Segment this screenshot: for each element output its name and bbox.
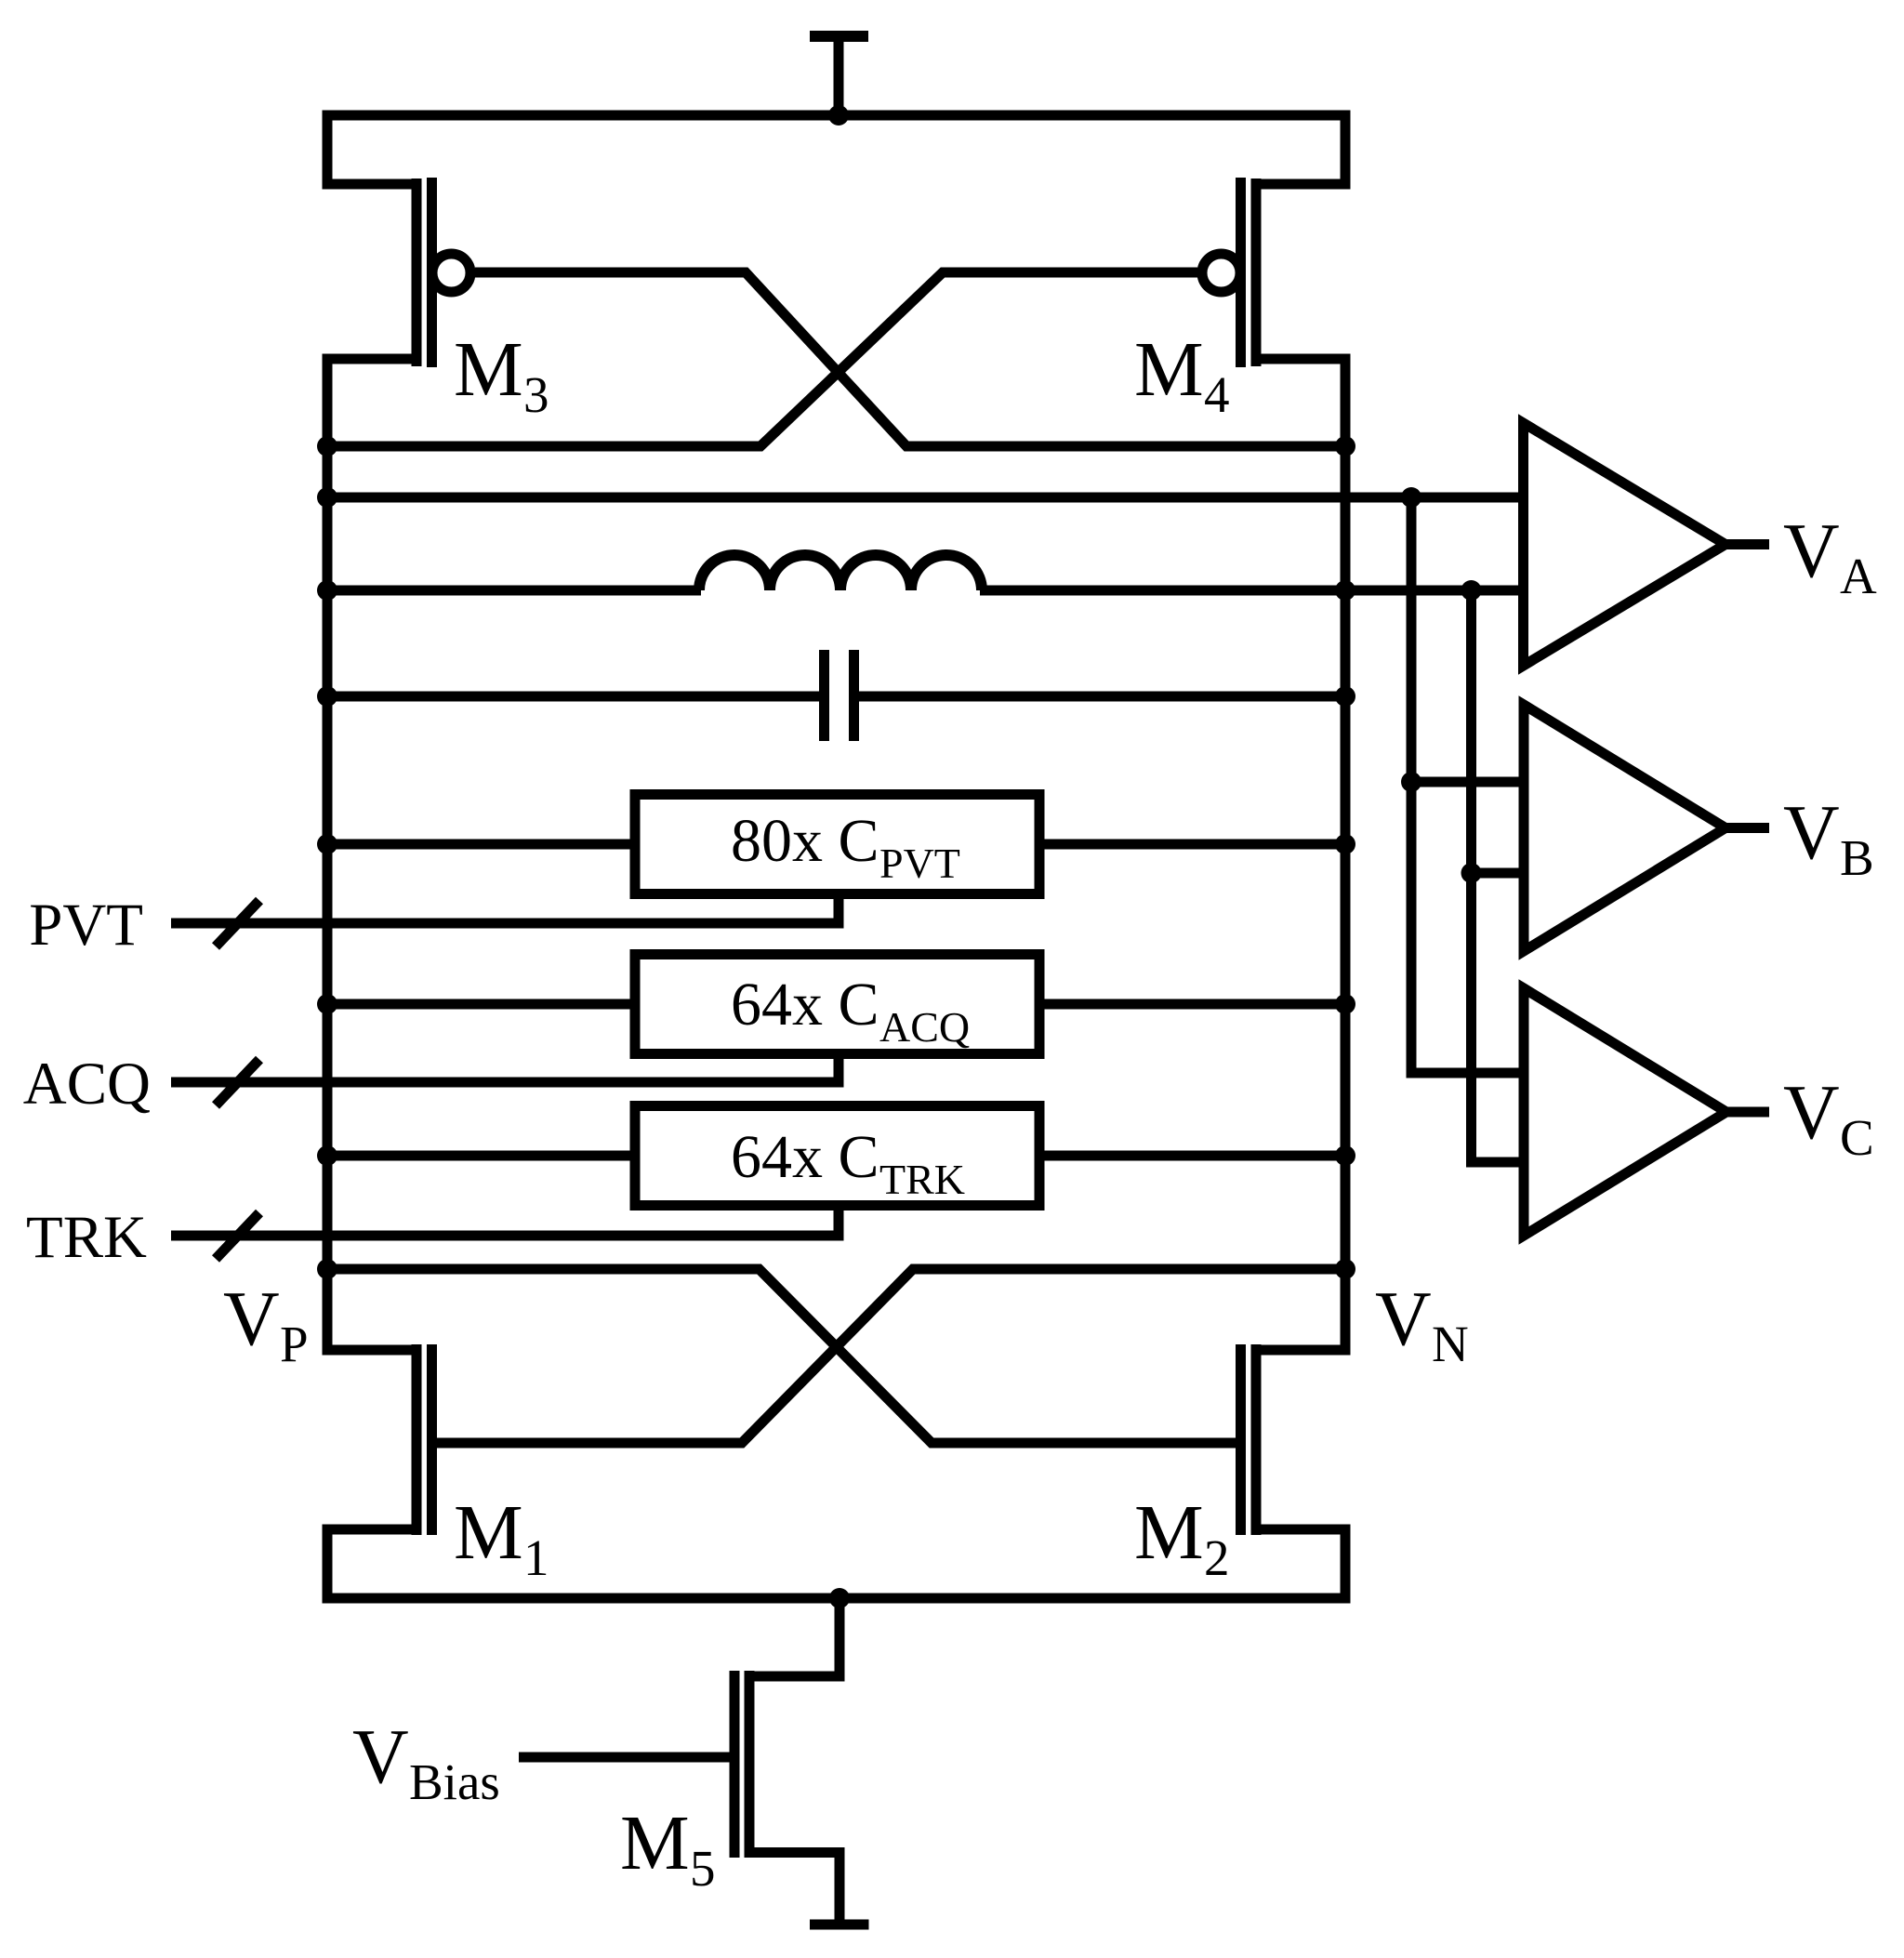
buffer U2 VB — [1524, 705, 1725, 951]
svg-text:V: V — [223, 1276, 280, 1362]
wire top rail with side drops — [327, 115, 1345, 189]
svg-text:B: B — [1840, 829, 1874, 886]
label M4 — [1134, 326, 1230, 423]
svg-text:TRK: TRK — [879, 1156, 965, 1203]
wire VP bus to M2 gate cross-couple — [327, 1269, 1240, 1443]
wire line5 left — [327, 840, 635, 850]
transistor M1 (NMOS) — [323, 1344, 432, 1535]
label M5 — [620, 1800, 716, 1897]
wire left rail middle — [323, 359, 333, 1350]
wire line6 left — [327, 999, 635, 1010]
label M1 — [454, 1489, 549, 1586]
wire VA output — [1725, 539, 1769, 549]
svg-text:TRK: TRK — [26, 1204, 147, 1271]
transistor M3 (PMOS) — [323, 178, 471, 367]
wire VC output — [1726, 1107, 1769, 1118]
wire bottom rail with side rises — [327, 1529, 1345, 1598]
junction dots right rail — [1335, 436, 1355, 1279]
wire PVT control stub — [834, 898, 844, 923]
label VBias — [352, 1713, 500, 1810]
capacitor bank 64x CTRK — [635, 1106, 1039, 1206]
svg-text:3: 3 — [523, 366, 549, 423]
bus slash PVT — [216, 901, 259, 947]
wire line6 right — [1039, 999, 1345, 1010]
capacitor bank 80x CPVT — [635, 795, 1039, 894]
svg-text:ACQ: ACQ — [879, 1003, 970, 1051]
label VN — [1375, 1276, 1469, 1372]
svg-text:PVT: PVT — [29, 892, 143, 959]
wire ACQ control stub — [834, 1058, 844, 1082]
label VC — [1783, 1069, 1874, 1166]
svg-text:PVT: PVT — [879, 840, 960, 887]
svg-text:P: P — [280, 1316, 309, 1372]
label 80x CPVT — [731, 807, 960, 887]
wire line7 right — [1039, 1151, 1345, 1161]
wire VP tap vertical to buffer C upper — [1411, 497, 1528, 1073]
transistor M5 (NMOS tail) — [734, 1598, 845, 1920]
svg-text:V: V — [352, 1713, 409, 1800]
svg-text:M: M — [454, 1489, 523, 1576]
capacitor bank 64x CACQ — [635, 955, 1039, 1054]
svg-text:64x C: 64x C — [731, 971, 879, 1039]
wire capacitor line left — [327, 692, 820, 702]
svg-text:4: 4 — [1204, 366, 1230, 423]
junction dots buffer taps — [1401, 487, 1482, 883]
svg-text:80x C: 80x C — [731, 807, 879, 875]
ground symbol — [810, 1920, 869, 1930]
wire VBias gate — [519, 1753, 730, 1763]
svg-text:ACQ: ACQ — [23, 1051, 151, 1118]
wire line VP to buffer A upper input — [327, 493, 1526, 503]
label 64x CACQ — [731, 971, 970, 1051]
wire inductor line left — [327, 586, 701, 596]
svg-text:V: V — [1783, 789, 1840, 876]
svg-text:5: 5 — [690, 1840, 716, 1897]
wire line5 right — [1039, 840, 1345, 850]
label VA — [1783, 508, 1877, 604]
svg-text:Bias: Bias — [409, 1753, 500, 1810]
wire VB output — [1725, 823, 1769, 833]
buffer U1 VA — [1524, 423, 1726, 666]
wire capacitor line right — [858, 692, 1345, 702]
wire right rail middle — [1341, 359, 1351, 1350]
svg-text:A: A — [1840, 548, 1877, 604]
transistor M4 (PMOS) — [1202, 178, 1351, 367]
wire TRK control stub — [834, 1210, 844, 1236]
label M3 — [454, 326, 549, 423]
wire VN tap to buffer B lower — [1472, 868, 1529, 879]
svg-text:M: M — [454, 326, 523, 413]
bus slash ACQ — [216, 1060, 259, 1106]
svg-text:M: M — [620, 1800, 690, 1886]
transistor M2 (NMOS) — [1241, 1344, 1351, 1535]
wire ACQ control line — [171, 1078, 844, 1088]
label M2 — [1134, 1489, 1230, 1586]
wire M4 gate cross-couple to left rail — [327, 272, 1197, 446]
bus slash TRK — [216, 1213, 259, 1260]
svg-text:N: N — [1432, 1316, 1469, 1372]
junction dot tail — [829, 1588, 850, 1608]
svg-text:1: 1 — [523, 1529, 549, 1586]
svg-text:V: V — [1783, 508, 1840, 594]
inductor L1 — [699, 555, 982, 590]
svg-text:2: 2 — [1204, 1529, 1230, 1586]
wire TRK control line — [171, 1231, 844, 1241]
junction dot supply-toprail — [828, 105, 849, 126]
capacitor C1 — [825, 650, 854, 741]
label VP — [223, 1276, 309, 1372]
label VB — [1783, 789, 1874, 886]
label 64x CTRK — [731, 1123, 965, 1203]
wire line7 left — [327, 1151, 635, 1161]
wire VN tap vertical to buffer C lower — [1472, 590, 1529, 1162]
junction dots left rail — [317, 436, 337, 1279]
wire VN bus to M1 gate cross-couple — [431, 1269, 1345, 1443]
buffer U3 VC — [1524, 988, 1726, 1236]
wire inductor line right to buffer A lower input — [980, 586, 1526, 596]
wire M3 gate cross-couple to right rail — [475, 272, 1345, 446]
svg-text:C: C — [1840, 1109, 1874, 1166]
svg-text:M: M — [1134, 326, 1204, 413]
svg-text:64x C: 64x C — [731, 1123, 879, 1191]
wire PVT control line — [171, 919, 844, 929]
supply VDD symbol — [810, 31, 868, 115]
svg-text:V: V — [1375, 1276, 1432, 1362]
svg-text:V: V — [1783, 1069, 1840, 1156]
wire VP tap to buffer B upper — [1411, 777, 1528, 787]
svg-text:M: M — [1134, 1489, 1204, 1576]
